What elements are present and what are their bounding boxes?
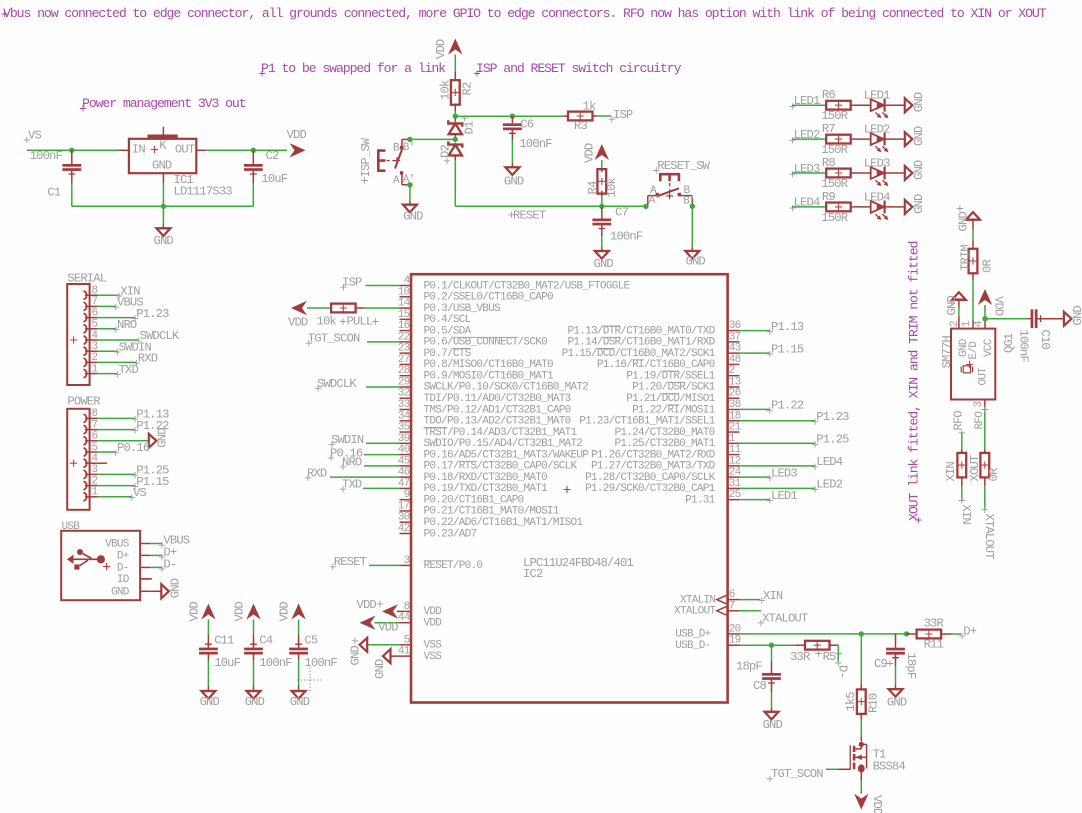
node NRO at pin 45	[340, 464, 346, 470]
resistor XOUT link 0R	[980, 453, 989, 478]
junction ISP_SW top pin	[407, 137, 412, 142]
svg-text:GND: GND	[290, 695, 310, 709]
svg-text:LED2: LED2	[816, 478, 842, 492]
node LED2	[789, 137, 795, 143]
svg-text:TDO/P0.13/AD2/CT32B1_MAT0: TDO/P0.13/AD2/CT32B1_MAT0	[424, 416, 571, 428]
svg-text:LED1: LED1	[771, 489, 797, 503]
pin SERIAL 4 SWDCLK	[84, 336, 87, 344]
svg-text:VDD: VDD	[233, 602, 247, 622]
svg-text:5: 5	[404, 634, 410, 646]
node P1.25 wire	[740, 442, 815, 444]
capacitor C10 100nF	[1031, 309, 1034, 328]
pin 32 TDI	[400, 397, 412, 399]
wire C1 to gnd bus	[71, 171, 73, 183]
ground above TRIM	[966, 212, 980, 220]
svg-text:0R: 0R	[987, 468, 1001, 481]
svg-text:P1.15: P1.15	[771, 342, 804, 356]
svg-text:P1.22/RI/MOSI1: P1.22/RI/MOSI1	[632, 404, 715, 416]
svg-text:32: 32	[398, 388, 410, 400]
svg-text:39: 39	[398, 433, 410, 445]
ground below C9	[889, 688, 903, 690]
pin 39 SWDIO	[400, 442, 412, 444]
wire IC1 GND down	[162, 173, 164, 183]
svg-text:C5: C5	[304, 634, 317, 648]
svg-text:5: 5	[92, 319, 98, 331]
svg-text:LED1: LED1	[864, 89, 890, 103]
svg-text:P0.18/RXD/CT32B0_MAT0: P0.18/RXD/CT32B0_MAT0	[424, 472, 548, 484]
gnd bus wire	[72, 205, 254, 207]
junction R10 tap	[859, 631, 864, 636]
svg-text:C10: C10	[1038, 330, 1052, 350]
pin 27 P0.8	[400, 363, 412, 365]
svg-text:GND: GND	[245, 695, 265, 709]
node LED1 wire	[740, 499, 770, 501]
wire to C10	[985, 318, 1028, 320]
junction R4 C7 RESET	[599, 204, 604, 209]
capacitor C6	[511, 116, 513, 123]
svg-text:1k: 1k	[583, 100, 596, 114]
svg-text:C4: C4	[259, 634, 272, 648]
svg-text:SM77H: SM77H	[940, 336, 954, 369]
svg-text:P0.2/SSEL0/CT16B0_CAP0: P0.2/SSEL0/CT16B0_CAP0	[424, 292, 554, 304]
wire VS to IC1 IN	[27, 149, 119, 151]
svg-text:VDD: VDD	[870, 795, 884, 813]
svg-text:P0.22/AD6/CT16B1_MAT1/MISO1: P0.22/AD6/CT16B1_MAT1/MISO1	[424, 517, 584, 529]
capacitor C4 100nF	[244, 648, 263, 651]
svg-text:XTALOUT: XTALOUT	[762, 612, 808, 626]
svg-text:TGT_SCON: TGT_SCON	[771, 767, 823, 781]
ground POWER pin 6	[98, 440, 149, 442]
wire LED4 to gnd	[885, 206, 905, 208]
svg-text:5: 5	[92, 442, 98, 454]
svg-text:P1.25: P1.25	[816, 433, 849, 447]
supply VDD above C4	[246, 604, 260, 620]
resistor TRIM 0R	[969, 249, 978, 273]
resistor R9 150R	[826, 203, 851, 212]
svg-text:P0.23/AD7: P0.23/AD7	[424, 528, 477, 540]
svg-text:P1.24/CT32B0_MAT0: P1.24/CT32B0_MAT0	[615, 427, 715, 439]
svg-text:P1.25/CT32B0_MAT1: P1.25/CT32B0_MAT1	[615, 438, 716, 450]
svg-text:D1: D1	[463, 121, 477, 134]
svg-text:IN: IN	[132, 142, 145, 156]
svg-text:34: 34	[398, 410, 411, 422]
svg-text:VDD: VDD	[188, 602, 202, 622]
wire R5 to D- label	[837, 645, 839, 662]
pin 3 RFO	[984, 400, 986, 409]
svg-text:17: 17	[398, 500, 410, 512]
node D+ (USB)	[150, 554, 162, 556]
resistor R4 10k	[597, 169, 606, 194]
svg-text:11: 11	[729, 444, 742, 456]
svg-text:100nF: 100nF	[519, 137, 552, 151]
svg-text:10k: 10k	[439, 80, 453, 100]
comment P1 swap	[259, 71, 265, 77]
wire LED4 to R9	[792, 206, 826, 208]
svg-text:100nF: 100nF	[304, 656, 337, 670]
svg-text:R7: R7	[822, 122, 835, 136]
pin SERIAL 8 XIN	[84, 291, 87, 299]
svg-text:33: 33	[398, 399, 410, 411]
svg-text:XTALOUT: XTALOUT	[674, 606, 716, 618]
svg-text:R8: R8	[822, 156, 835, 170]
svg-text:SWCLK/P0.10/SCK0/CT16B0_MAT2: SWCLK/P0.10/SCK0/CT16B0_MAT2	[424, 382, 589, 394]
pin 45 P0.17	[400, 465, 412, 467]
pin 11 P1.26	[728, 454, 740, 456]
svg-text:RXD: RXD	[138, 352, 158, 366]
pin 19 USB_D-	[728, 644, 740, 646]
resistor R5 33R	[796, 644, 806, 646]
svg-text:22: 22	[398, 331, 410, 343]
svg-text:VDD: VDD	[278, 602, 292, 622]
capacitor C5 100nF	[289, 648, 308, 651]
svg-text:VDD: VDD	[288, 315, 308, 329]
svg-text:23: 23	[398, 343, 410, 355]
svg-text:P1.14/DSR/CT16B0_MAT1/RXD: P1.14/DSR/CT16B0_MAT1/RXD	[567, 337, 715, 349]
resistor PULL 10k with VDD	[291, 301, 307, 315]
pin POWER 3	[84, 470, 87, 478]
pin 5 VSS	[400, 644, 412, 646]
ground below IC1	[162, 206, 164, 224]
svg-text:38: 38	[729, 399, 741, 411]
node P0.16 (POWER)	[98, 451, 116, 453]
ground LED3	[905, 166, 913, 180]
pin POWER 4	[84, 459, 87, 467]
resistor R7 150R	[826, 135, 851, 144]
regulator IC1 LD1117S33	[119, 149, 129, 151]
svg-text:VDD: VDD	[287, 128, 307, 142]
svg-text:SWDIN: SWDIN	[331, 433, 364, 447]
node TGT_SCON at pin 22	[306, 340, 312, 346]
svg-text:C9: C9	[874, 657, 887, 671]
pin 4 P0.1	[400, 285, 412, 287]
svg-text:RESET/P0.0: RESET/P0.0	[424, 560, 483, 572]
svg-text:6: 6	[92, 431, 98, 443]
svg-text:P0.21/CT16B1_MAT0/MOSI1: P0.21/CT16B1_MAT0/MOSI1	[424, 506, 560, 518]
svg-text:PULL: PULL	[347, 315, 373, 329]
svg-text:P0.1/CLKOUT/CT32B0_MAT2/USB_FT: P0.1/CLKOUT/CT32B0_MAT2/USB_FTOGGLE	[424, 280, 631, 292]
svg-text:P1.13/DTR/CT16B0_MAT0/TXD: P1.13/DTR/CT16B0_MAT0/TXD	[567, 325, 715, 337]
svg-text:C2: C2	[266, 149, 279, 163]
svg-text:VBUS: VBUS	[105, 539, 130, 551]
svg-text:GND: GND	[1071, 306, 1082, 326]
svg-text:Power management 3V3 out: Power management 3V3 out	[82, 96, 246, 111]
svg-text:BSS84: BSS84	[873, 759, 906, 773]
pin 24 P1.28	[728, 476, 740, 478]
svg-text:100nF: 100nF	[610, 230, 643, 244]
resistor R6 150R	[826, 101, 851, 110]
svg-text:R10: R10	[867, 693, 881, 713]
svg-text:ID: ID	[117, 574, 130, 586]
node SWDCLK at pin 29	[315, 385, 321, 391]
svg-text:P1.26/CT32B0_MAT2/RXD: P1.26/CT32B0_MAT2/RXD	[591, 449, 716, 461]
svg-text:OUT: OUT	[175, 143, 195, 157]
svg-text:GND: GND	[887, 695, 907, 709]
svg-text:10k: 10k	[317, 315, 337, 329]
svg-text:P1.21/DCD/MISO1: P1.21/DCD/MISO1	[626, 393, 715, 405]
pin POWER 4 stub	[98, 462, 107, 464]
svg-text:D-: D-	[117, 562, 129, 574]
resistor R2 10k	[451, 80, 460, 105]
comment top line	[2, 11, 8, 17]
ground below C4	[247, 690, 261, 692]
svg-text:10k: 10k	[605, 178, 619, 198]
svg-text:48: 48	[729, 354, 741, 366]
node P1.23 wire	[740, 420, 815, 422]
ground below C5	[292, 690, 306, 692]
svg-text:R2: R2	[461, 82, 475, 95]
svg-text:GND: GND	[957, 212, 971, 232]
svg-text:3: 3	[92, 341, 98, 353]
node VS	[24, 137, 30, 143]
svg-text:44: 44	[398, 612, 411, 624]
pin 41 VSS	[390, 655, 411, 657]
capacitor C9 18pF	[895, 634, 897, 648]
svg-text:GND: GND	[169, 578, 183, 598]
ground LED4	[905, 200, 913, 214]
svg-text:13: 13	[729, 376, 741, 388]
wire XOUT link down	[984, 477, 986, 486]
supply VDD arrow down	[860, 792, 862, 794]
pin 40 P0.16	[400, 454, 412, 456]
pin SERIAL 2 RXD	[84, 358, 87, 366]
pin 38 P1.22	[728, 408, 740, 410]
junction C6 top	[510, 114, 515, 119]
svg-text:XIN: XIN	[763, 589, 783, 603]
pin 8 VDD	[397, 610, 411, 612]
svg-text:NRO: NRO	[342, 455, 362, 469]
svg-text:100nF: 100nF	[30, 149, 63, 163]
pin 17 P0.21	[400, 510, 412, 512]
svg-text:P0.16: P0.16	[117, 441, 150, 455]
svg-text:P0.19/TXD/CT32B0_MAT1: P0.19/TXD/CT32B0_MAT1	[424, 483, 549, 495]
oscillator QG1 SM77H box	[951, 329, 995, 400]
svg-text:VDD: VDD	[434, 39, 448, 59]
pin POWER 7	[84, 425, 87, 433]
capacitor C8 18pF	[771, 645, 773, 661]
pin 21 P1.24	[728, 431, 740, 433]
svg-text:NRO: NRO	[117, 318, 137, 332]
pin POWER 2	[84, 481, 87, 489]
node XIN at XTALIN	[759, 597, 765, 603]
ground right of C10	[1064, 312, 1072, 326]
wire RFO stub to XIN link	[961, 433, 963, 449]
node P0.16 at pin 40	[328, 455, 334, 461]
transistor T1 BSS84	[859, 742, 864, 747]
resistor R3 1k	[564, 115, 567, 117]
svg-text:D2: D2	[438, 145, 452, 158]
svg-text:P0.6/USB_CONNECT/SCK0: P0.6/USB_CONNECT/SCK0	[424, 337, 548, 349]
wire R7 to LED2	[851, 138, 871, 140]
svg-text:33R: 33R	[924, 616, 944, 630]
node LED3 wire	[740, 476, 770, 478]
wire R8 to LED3	[851, 172, 871, 174]
svg-text:VCC: VCC	[983, 338, 995, 357]
svg-text:43: 43	[729, 343, 741, 355]
svg-text:VDD: VDD	[357, 598, 377, 612]
svg-text:TXD: TXD	[342, 478, 362, 492]
pin POWER 6	[84, 437, 87, 445]
LED LED4	[871, 201, 884, 213]
svg-text:P0.5/SDA: P0.5/SDA	[424, 325, 472, 337]
pin 47 P0.19	[400, 487, 412, 489]
svg-text:RESET: RESET	[513, 209, 546, 223]
svg-text:27: 27	[398, 354, 410, 366]
pin SERIAL 5 NRO	[84, 325, 87, 333]
pin POWER 1	[84, 493, 87, 501]
svg-text:TGT_SCON: TGT_SCON	[308, 332, 360, 346]
node P1.22 wire	[740, 408, 770, 410]
svg-text:R4: R4	[586, 181, 600, 194]
pin 2 gnd	[958, 300, 960, 308]
svg-text:C8: C8	[753, 679, 766, 693]
svg-text:P1.29/SCK0/CT32B0_CAP1: P1.29/SCK0/CT32B0_CAP1	[585, 483, 716, 495]
pin 16 P0.5	[400, 330, 412, 332]
svg-text:19: 19	[729, 635, 741, 647]
svg-text:GND: GND	[912, 92, 926, 112]
svg-text:0R: 0R	[981, 260, 995, 273]
svg-text:10uF: 10uF	[214, 656, 240, 670]
wire D junction to ISP_SW	[410, 138, 455, 140]
svg-text:7: 7	[729, 600, 735, 612]
svg-text:VDD: VDD	[424, 606, 443, 618]
svg-text:18pF: 18pF	[736, 660, 762, 674]
svg-text:C1: C1	[47, 186, 60, 200]
svg-text:2: 2	[92, 475, 98, 487]
ground below C7	[595, 250, 609, 252]
svg-text:GND: GND	[200, 695, 220, 709]
pin POWER 8	[84, 414, 87, 422]
svg-text:18: 18	[729, 410, 741, 422]
svg-text:21: 21	[729, 422, 742, 434]
junction C2 top	[251, 148, 256, 153]
svg-text:TRIM: TRIM	[958, 245, 972, 271]
svg-text:XIN: XIN	[959, 505, 973, 525]
svg-text:P0.9/MOSI0/CT16B0_MAT1: P0.9/MOSI0/CT16B0_MAT1	[424, 370, 555, 382]
svg-text:ISP: ISP	[613, 108, 633, 122]
svg-text:LED4: LED4	[816, 455, 842, 469]
wire gnd to TRIM	[972, 219, 974, 229]
pin 15 P0.4	[400, 318, 412, 320]
svg-text:P1.20/DSR/SCK1: P1.20/DSR/SCK1	[632, 382, 715, 394]
svg-text:GND: GND	[111, 586, 130, 598]
svg-text:3: 3	[92, 464, 98, 476]
svg-text:QG1: QG1	[1002, 333, 1016, 353]
svg-text:42: 42	[398, 523, 410, 535]
svg-text:3: 3	[404, 555, 410, 567]
node RESET (switch net)	[508, 212, 514, 218]
USB icon	[67, 555, 74, 564]
capacitor C7	[601, 206, 603, 218]
node RFO label right	[982, 406, 988, 412]
pin 26 P1.21	[728, 397, 740, 399]
svg-text:XOUT link fitted, XIN and TRIM: XOUT link fitted, XIN and TRIM not fitte…	[907, 241, 922, 521]
svg-text:A': A'	[649, 195, 661, 207]
node XTALOUT label	[758, 620, 764, 626]
pin 2 P1.19	[728, 375, 740, 377]
svg-text:P0.20/CT16B1_CAP0: P0.20/CT16B1_CAP0	[424, 494, 524, 506]
ground below ISP_SW	[409, 185, 411, 201]
pin 28 P0.9	[400, 375, 412, 377]
pin 29 SWCLK	[400, 386, 412, 388]
node P1.22 (POWER)	[98, 429, 135, 431]
svg-text:USB_D-: USB_D-	[675, 640, 710, 652]
pin 7 XTALOUT	[728, 610, 740, 612]
svg-text:GND: GND	[156, 428, 170, 448]
pin 42 P0.23	[400, 532, 412, 534]
svg-text:LED3: LED3	[864, 157, 890, 171]
svg-text:RESET: RESET	[334, 555, 367, 569]
supply VDD above C5	[291, 604, 305, 620]
pin 10 P0.2	[400, 296, 412, 298]
svg-text:P0.8/MISO0/CT16B0_MAT0: P0.8/MISO0/CT16B0_MAT0	[424, 359, 554, 371]
node XTALOUT label bottom	[982, 507, 988, 513]
wire pin3 to XOUT link	[984, 408, 986, 450]
svg-text:XTALOUT: XTALOUT	[982, 514, 996, 560]
svg-text:100nF: 100nF	[1017, 330, 1031, 363]
node SWDIN (SERIAL)	[98, 350, 118, 352]
svg-text:E/D: E/D	[968, 341, 980, 360]
svg-text:B': B'	[403, 142, 415, 154]
svg-text:SWDCLK: SWDCLK	[317, 377, 357, 391]
node XIN (SERIAL)	[98, 294, 119, 296]
pin 44 VDD	[400, 622, 412, 624]
svg-text:20: 20	[729, 623, 741, 635]
node XIN label bottom	[959, 497, 965, 503]
svg-text:VDD: VDD	[992, 296, 1006, 316]
pin 13 P1.20	[728, 386, 740, 388]
svg-text:OUT: OUT	[978, 367, 990, 386]
capacitor C1	[71, 150, 73, 164]
pin 37 P1.14	[728, 341, 740, 343]
node D-	[835, 660, 841, 666]
svg-text:14: 14	[398, 298, 411, 310]
svg-text:USB_D+: USB_D+	[675, 629, 710, 641]
svg-text:36: 36	[729, 320, 741, 332]
wire R2 to junction	[454, 105, 456, 111]
svg-text:1k5: 1k5	[844, 692, 858, 712]
switch RESET_SW	[653, 167, 659, 173]
wire RESET horizontal	[455, 205, 646, 207]
wire IC1 OUT to VDD	[196, 149, 206, 151]
svg-text:GND: GND	[504, 175, 524, 189]
svg-text:R9: R9	[822, 190, 835, 204]
junction gnd bus	[161, 204, 166, 209]
node SWDCLK (SERIAL)	[98, 339, 138, 341]
svg-text:P1.27/CT32B0_MAT3/TXD: P1.27/CT32B0_MAT3/TXD	[591, 461, 716, 473]
svg-text:TDI/P0.11/AD0/CT32B0_MAT3: TDI/P0.11/AD0/CT32B0_MAT3	[424, 393, 571, 405]
svg-text:XTALIN: XTALIN	[680, 594, 715, 606]
svg-text:GND: GND	[912, 126, 926, 146]
LED LED3	[871, 167, 884, 179]
svg-text:P1.13: P1.13	[771, 320, 804, 334]
ground below C6	[506, 166, 520, 168]
wire XIN link down	[961, 477, 963, 486]
switch ISP_SW	[378, 151, 385, 171]
svg-text:P1.31: P1.31	[685, 494, 716, 506]
svg-text:RXD: RXD	[307, 466, 327, 480]
svg-text:P0.7/CTS: P0.7/CTS	[424, 348, 472, 360]
pin 1 P1.25	[728, 442, 740, 444]
capacitor C11 10uF	[199, 648, 218, 651]
svg-text:40: 40	[398, 444, 410, 456]
node D- (USB)	[150, 566, 162, 568]
svg-text:25: 25	[729, 489, 741, 501]
node TGT_SCON at T1 gate	[767, 776, 773, 782]
svg-text:R5: R5	[823, 650, 836, 664]
supply VDD above pin 4	[978, 289, 992, 305]
svg-text:RFO: RFO	[951, 411, 965, 431]
pin SERIAL 1 TXD	[84, 369, 87, 377]
